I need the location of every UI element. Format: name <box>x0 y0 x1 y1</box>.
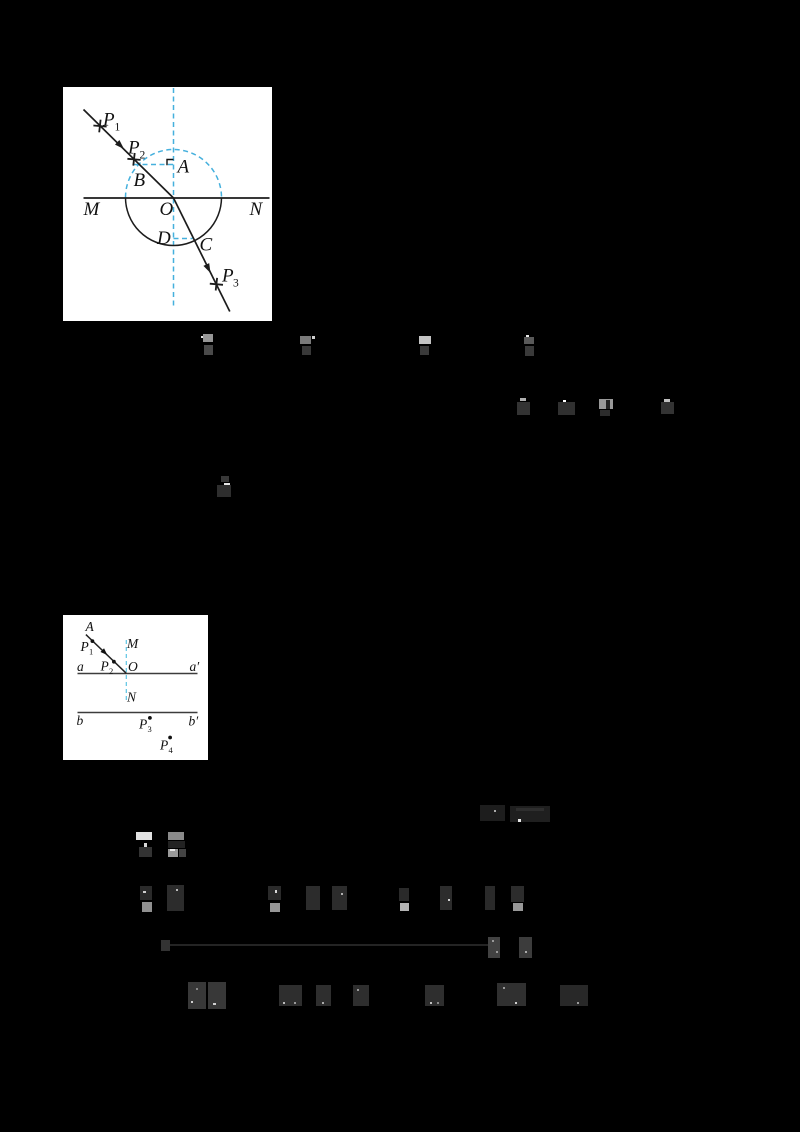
svg-text:N: N <box>126 690 137 705</box>
svg-text:B: B <box>134 170 146 191</box>
pin cross P1 <box>93 120 106 133</box>
svg-text:3: 3 <box>233 278 239 290</box>
svg-text:M: M <box>83 199 101 220</box>
svg-text:2: 2 <box>140 150 146 162</box>
svg-text:1: 1 <box>89 647 93 657</box>
svg-text:D: D <box>156 228 171 249</box>
svg-text:M: M <box>126 636 139 651</box>
refracted arrowhead <box>203 263 210 273</box>
dashed normal MN <box>125 640 127 703</box>
svg-text:C: C <box>200 235 213 256</box>
pin cross P3 <box>210 278 223 291</box>
svg-text:P: P <box>102 110 115 131</box>
svg-text:O: O <box>160 199 174 220</box>
svg-text:P: P <box>159 738 168 753</box>
svg-text:1: 1 <box>115 122 121 134</box>
incident ray <box>84 110 174 199</box>
figure panel 1: refraction circle diagram <box>63 87 272 321</box>
svg-text:4: 4 <box>169 745 174 755</box>
incident ray A-O <box>86 635 126 674</box>
refracted ray <box>174 198 230 312</box>
svg-text:b′: b′ <box>189 714 200 729</box>
svg-text:3: 3 <box>148 724 152 734</box>
ray arrowhead <box>100 648 107 655</box>
figure panel 2: flat glass plate diagram <box>63 615 208 760</box>
svg-text:P: P <box>100 659 109 674</box>
svg-text:a′: a′ <box>190 659 201 674</box>
line b-b' <box>78 712 198 714</box>
right angle mark at A <box>167 160 174 166</box>
dot P2 <box>112 660 116 664</box>
svg-text:a: a <box>77 659 84 674</box>
dot P4 <box>168 736 172 740</box>
MN surface line <box>84 197 270 199</box>
svg-text:P: P <box>80 639 89 654</box>
faint residual glyph marks <box>0 0 800 1</box>
dashed horizontal from P2 to A <box>134 164 174 166</box>
svg-text:A: A <box>85 619 95 634</box>
lower solid semicircle <box>126 198 222 246</box>
line a-a' <box>78 673 198 675</box>
incident arrowhead <box>115 140 124 149</box>
dashed horizontal at D <box>174 238 193 240</box>
svg-text:2: 2 <box>109 666 113 676</box>
upper dashed semicircle <box>126 150 222 198</box>
dot P1 <box>91 639 95 643</box>
svg-text:O: O <box>128 659 138 674</box>
vertical dashed normal line <box>173 88 175 308</box>
svg-text:P: P <box>138 717 147 732</box>
svg-text:A: A <box>176 157 190 178</box>
svg-text:b: b <box>77 713 84 728</box>
pin cross P2 <box>127 153 140 166</box>
svg-text:N: N <box>249 199 264 220</box>
svg-text:P: P <box>127 138 140 159</box>
dot P3 <box>148 716 152 720</box>
